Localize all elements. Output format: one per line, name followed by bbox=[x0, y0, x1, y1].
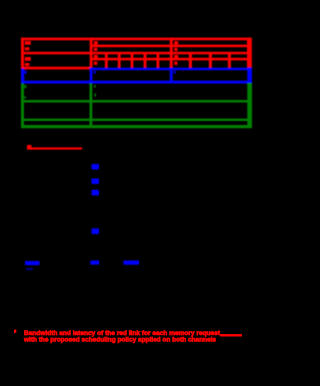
blue blob 4 bbox=[92, 228, 100, 234]
blue dash A bbox=[25, 261, 40, 265]
cell label s3 r2 bbox=[174, 48, 177, 51]
red comb tooth s2-1 bbox=[105, 52, 108, 68]
cell label s3 r4 bbox=[174, 62, 177, 65]
red comb tooth s2-4 bbox=[144, 52, 147, 68]
caption left tick bbox=[14, 330, 16, 333]
blue divider A bbox=[90, 68, 93, 84]
red legend left blob bbox=[27, 145, 32, 150]
red comb tooth s2-2 bbox=[118, 52, 121, 68]
cell label s2 r2 bbox=[94, 48, 98, 51]
blue divider B bbox=[170, 68, 173, 84]
green hline1 bbox=[21, 100, 252, 103]
green cell label r1a bbox=[24, 85, 26, 88]
green bottom hline bbox=[21, 125, 252, 128]
green cell label s2a bbox=[94, 85, 96, 88]
red comb tooth s2-5 bbox=[157, 52, 160, 68]
red hline4 right part bbox=[90, 58, 252, 61]
blue right edge bbox=[247, 67, 252, 83]
green right edge bbox=[247, 83, 252, 128]
red comb tooth s2-3 bbox=[131, 52, 134, 68]
blue blob 1 bbox=[92, 164, 100, 170]
red divider A bbox=[90, 38, 93, 69]
red legend line bbox=[27, 147, 82, 149]
red hline2 right part bbox=[90, 45, 252, 48]
red comb tooth s3-2 bbox=[209, 52, 212, 68]
green cell label s2b bbox=[95, 94, 96, 97]
green divider A bbox=[90, 84, 93, 127]
red hline3 full bbox=[21, 52, 252, 55]
cell label s2 r3 bbox=[94, 55, 98, 58]
blue cell label s3 bbox=[174, 71, 176, 74]
cell label s2 r4 bbox=[94, 62, 98, 65]
green left edge bbox=[21, 83, 24, 128]
red left edge bbox=[21, 38, 24, 70]
blue dash B bbox=[90, 261, 99, 265]
blue cell label s2 bbox=[94, 71, 96, 74]
red comb tooth s3-3 bbox=[228, 52, 231, 68]
red bottom hline left column bbox=[21, 67, 91, 70]
cell label s3 r1 bbox=[174, 41, 178, 44]
red table top hline bbox=[21, 38, 252, 41]
blue left edge bbox=[21, 69, 24, 83]
cell label s3 r3 bbox=[174, 55, 178, 58]
green hline2 bbox=[21, 119, 252, 121]
green cell label r1b bbox=[24, 97, 26, 99]
svg-text:with the proposed scheduling p: with the proposed scheduling policy appl… bbox=[23, 336, 216, 343]
blue dash A smudge bbox=[26, 268, 33, 270]
red comb tooth s3-1 bbox=[189, 52, 192, 68]
blue blob 2 bbox=[92, 179, 100, 185]
caption rule dash bbox=[220, 334, 242, 336]
cell label s1 r1b bbox=[25, 47, 30, 50]
blue cell label s1 bbox=[25, 71, 27, 74]
blue blob 3 bbox=[92, 190, 100, 196]
cell label s1 r2b bbox=[25, 63, 30, 66]
blue dash C bbox=[124, 261, 140, 265]
blue top hline right part bbox=[90, 68, 253, 71]
cell label s1 r1a bbox=[25, 41, 31, 45]
red divider B bbox=[170, 38, 173, 69]
cell label s1 r2a bbox=[25, 57, 31, 61]
blue bottom hline bbox=[21, 81, 252, 84]
red right edge bbox=[247, 38, 252, 68]
cell label s2 r1 bbox=[94, 41, 98, 44]
